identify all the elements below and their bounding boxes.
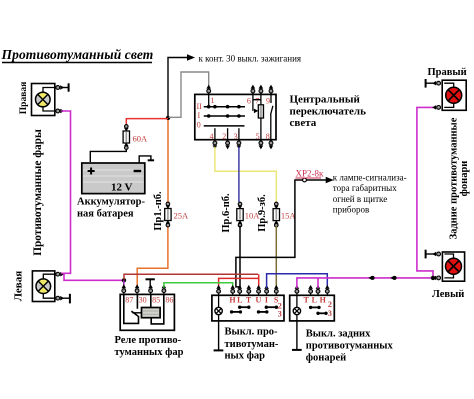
pin T S1 — [247, 285, 252, 295]
pin L S1 — [237, 285, 242, 295]
title — [1, 47, 154, 63]
pin 4 bottom — [213, 140, 218, 150]
wire: violet stub to relay 87 — [123, 280, 125, 287]
svg-text:Правый: Правый — [428, 67, 467, 78]
svg-text:Т: Т — [246, 296, 252, 305]
contact bar L-H S2 — [316, 312, 327, 315]
svg-text:II: II — [197, 102, 203, 111]
fuse 15A Пр.9-зб. — [273, 202, 296, 227]
label: Левая — [13, 271, 25, 301]
svg-text:света: света — [290, 117, 317, 129]
lamp EL4 left rear fog lamp — [432, 252, 464, 282]
wire: black to XP2-8k pilot lamp — [236, 177, 334, 289]
svg-text:противотуманных: противотуманных — [306, 341, 394, 352]
connector dot pair 2 on magenta run — [390, 276, 396, 280]
svg-text:L: L — [237, 296, 242, 305]
switch blade 9-8 inside central switch — [271, 94, 273, 139]
svg-text:0: 0 — [197, 121, 201, 130]
rear fog switch box S2 — [290, 295, 335, 321]
wire: green relay 86 to fog switch H — [164, 283, 233, 288]
pin 9 top — [269, 85, 274, 95]
svg-text:Пр1.-пб.: Пр1.-пб. — [153, 191, 164, 231]
svg-text:Центральный: Центральный — [290, 94, 361, 106]
svg-text:12 V: 12 V — [111, 182, 133, 194]
pin H S2 — [325, 285, 330, 295]
svg-text:туманных фар: туманных фар — [115, 347, 184, 358]
pin labels S1 — [229, 296, 281, 319]
svg-text:ных фар: ных фар — [225, 351, 266, 362]
svg-text:Н: Н — [320, 296, 327, 305]
wire: dark red node B to fog switch — [124, 274, 258, 279]
ground: right fog lamp — [62, 83, 69, 91]
svg-text:Т: Т — [304, 296, 310, 305]
wire: khaki 15A fuse to fog switch terminal S — [275, 226, 277, 289]
label: Левый — [432, 289, 464, 300]
contact bar L-T S1 — [238, 306, 251, 309]
fog lamp switch box S1 — [212, 295, 284, 321]
svg-text:3: 3 — [234, 132, 238, 141]
svg-text:5: 5 — [256, 132, 260, 141]
position row 0 — [204, 125, 245, 127]
wire: blue S1 I to S2 H — [267, 274, 328, 288]
label: Правая — [19, 82, 29, 114]
svg-text:ХР2-8к: ХР2-8к — [296, 169, 325, 179]
pin 30 relay — [135, 284, 140, 294]
pin labels central switch — [197, 96, 271, 141]
svg-text:Правая: Правая — [19, 82, 29, 114]
svg-text:І: І — [265, 296, 268, 305]
svg-text:к конт. 30 выкл. зажигания: к конт. 30 выкл. зажигания — [199, 54, 302, 64]
svg-text:фонарей: фонарей — [306, 352, 346, 363]
lamp EL1 right fog lamp — [32, 84, 65, 116]
label: Противотуманные фары — [32, 129, 44, 256]
position row II — [204, 94, 245, 108]
svg-text:приборов: приборов — [333, 205, 369, 215]
pin 5 bottom — [259, 140, 264, 150]
wire: red from 60A fuse to node A — [126, 118, 168, 125]
svg-text:тора габаритных: тора габаритных — [333, 183, 397, 193]
label: к лампе-сигнализатора — [333, 173, 407, 215]
svg-text:фонари: фонари — [459, 161, 470, 197]
svg-text:25А: 25А — [174, 210, 190, 220]
battery GB1 12V — [82, 163, 145, 194]
wire: battery minus — [139, 156, 151, 163]
svg-text:к лампе-сигнализа-: к лампе-сигнализа- — [333, 173, 407, 183]
fuse 10A Пр.6-пб. — [237, 202, 260, 227]
pin 1 top — [206, 85, 211, 95]
svg-text:L: L — [312, 296, 317, 305]
svg-text:I: I — [198, 111, 201, 120]
label: ХР2-8к — [296, 169, 325, 179]
pin T S2 — [308, 285, 313, 295]
svg-text:Пр.6-пб.: Пр.6-пб. — [221, 193, 232, 233]
svg-text:огней в щитке: огней в щитке — [333, 194, 387, 204]
lamp EL2 left fog lamp — [32, 271, 64, 302]
pin 86 relay — [162, 284, 167, 294]
svg-text:Н: Н — [229, 296, 236, 305]
label: Аккумуляторная батарея — [77, 197, 145, 220]
svg-text:4: 4 — [210, 132, 214, 141]
contact bar U-I S1 — [257, 310, 269, 313]
svg-text:Выкл. про-: Выкл. про- — [225, 327, 279, 338]
svg-text:1: 1 — [211, 96, 215, 105]
svg-text:Левый: Левый — [432, 289, 464, 300]
pin lamp S1 — [216, 285, 221, 295]
label: Правый — [428, 67, 467, 78]
ground: left fog lamp — [62, 294, 70, 304]
ground: right rear lamp — [426, 79, 435, 88]
node A junction battery/ignition/switch — [166, 116, 170, 120]
label: Пр.6-пб. — [221, 193, 232, 233]
connector dot pair on magenta run — [368, 276, 374, 280]
wire: indigo terminal 3 to 10A fuse — [238, 147, 240, 202]
relay contact blade — [124, 294, 139, 323]
ground: relay 85 — [146, 279, 155, 287]
svg-text:9: 9 — [266, 97, 270, 106]
pin L S2 — [316, 285, 321, 295]
label: Реле противотуманных фар — [115, 335, 184, 358]
ground: battery minus — [148, 159, 154, 161]
svg-text:2: 2 — [222, 132, 226, 141]
pin I S1 — [264, 285, 269, 295]
pin lamp S2 — [295, 285, 300, 295]
fuse 60A — [123, 125, 148, 150]
label: Пр1.-пб. — [153, 191, 164, 231]
label: к конт. 30 выкл. зажигания — [199, 54, 302, 64]
label: Центральный переключатель света — [290, 94, 367, 130]
node C junction rear lamps — [431, 276, 435, 280]
relay coil — [132, 294, 163, 324]
wire: red to switch terminals 1 and U — [219, 274, 259, 288]
pin labels relay — [125, 296, 173, 305]
svg-text:Аккумулятор-: Аккумулятор- — [77, 197, 145, 208]
fuse 25A Пр1.-пб. — [165, 202, 189, 227]
svg-text:U: U — [256, 296, 262, 305]
svg-text:8: 8 — [266, 132, 270, 141]
wire: black 10A fuse to fog switch terminal L — [239, 226, 241, 289]
pin H S1 — [230, 285, 235, 295]
ground: S1 — [214, 321, 224, 351]
contact bar I-S S1 — [265, 306, 279, 309]
position row I — [204, 114, 245, 118]
label: Выкл. противотуманных фар — [225, 327, 279, 362]
pin 85 relay — [148, 284, 153, 294]
label: Пр.9-зб. — [257, 194, 268, 232]
svg-text:30: 30 — [139, 296, 147, 305]
svg-text:ная батарея: ная батарея — [77, 209, 134, 220]
svg-text:87: 87 — [125, 296, 133, 305]
wire: yellow terminal 4 to 15A fuse — [215, 147, 276, 202]
pin U S1 — [256, 285, 261, 295]
svg-text:2: 2 — [328, 300, 332, 309]
pilot lamp inside S2 — [293, 295, 300, 321]
wire: magenta rear fog lamps run — [297, 107, 436, 288]
svg-text:Левая: Левая — [13, 271, 25, 301]
svg-text:Противотуманные фары: Противотуманные фары — [32, 129, 44, 256]
svg-text:3: 3 — [328, 309, 332, 318]
central light switch box S3 — [195, 94, 276, 139]
svg-text:60А: 60А — [133, 133, 149, 143]
svg-text:3: 3 — [278, 310, 282, 319]
svg-text:переключатель: переключатель — [290, 105, 367, 117]
svg-text:85: 85 — [152, 296, 160, 305]
svg-text:Выкл. задних: Выкл. задних — [306, 329, 371, 340]
contact bar H-L S1 — [230, 310, 242, 313]
pin 87 relay — [122, 284, 127, 294]
contact bar T-L S2 — [309, 306, 321, 309]
pin labels S2 — [304, 296, 332, 318]
pin 8 bottom — [269, 140, 274, 150]
pin 2 bottom — [225, 140, 230, 150]
node B junction at relay 87 — [122, 278, 126, 282]
pin S S1 — [274, 285, 279, 295]
pilot lamp inside S1 — [215, 295, 222, 321]
wire: black feed to ignition switch contact 30 — [168, 54, 195, 118]
pin 3 bottom — [237, 140, 242, 150]
wire: orange node A to 25A fuse to relay terminal 30 — [137, 120, 168, 288]
label: Выкл. задних противотуманных фонарей — [306, 329, 394, 364]
wire: magenta fog lamps to relay 87 — [61, 111, 123, 280]
wire: battery plus to 60A fuse — [90, 150, 126, 162]
svg-text:тивотуман-: тивотуман- — [225, 339, 279, 350]
stubs terminals 4 2 3 — [215, 128, 239, 140]
pin 7 top — [259, 85, 264, 95]
svg-text:Противотуманный свет: Противотуманный свет — [1, 47, 154, 62]
svg-text:Реле противо-: Реле противо- — [115, 335, 182, 346]
wire: grey from node A to central switch terminal 1 — [169, 72, 209, 117]
lamp EL3 right rear fog lamp — [432, 80, 466, 110]
svg-text:6: 6 — [247, 97, 251, 106]
ground: left rear lamp — [426, 250, 435, 259]
rheostat inside central switch — [253, 94, 264, 139]
relay K1 fog lamp relay — [120, 294, 174, 330]
svg-text:15А: 15А — [281, 210, 297, 220]
svg-text:Пр.9-зб.: Пр.9-зб. — [257, 194, 268, 232]
svg-text:86: 86 — [165, 296, 173, 305]
pin 6 top — [251, 85, 256, 95]
label: Задние противотуманные фонари — [449, 117, 470, 239]
ground: S2 — [292, 321, 302, 350]
